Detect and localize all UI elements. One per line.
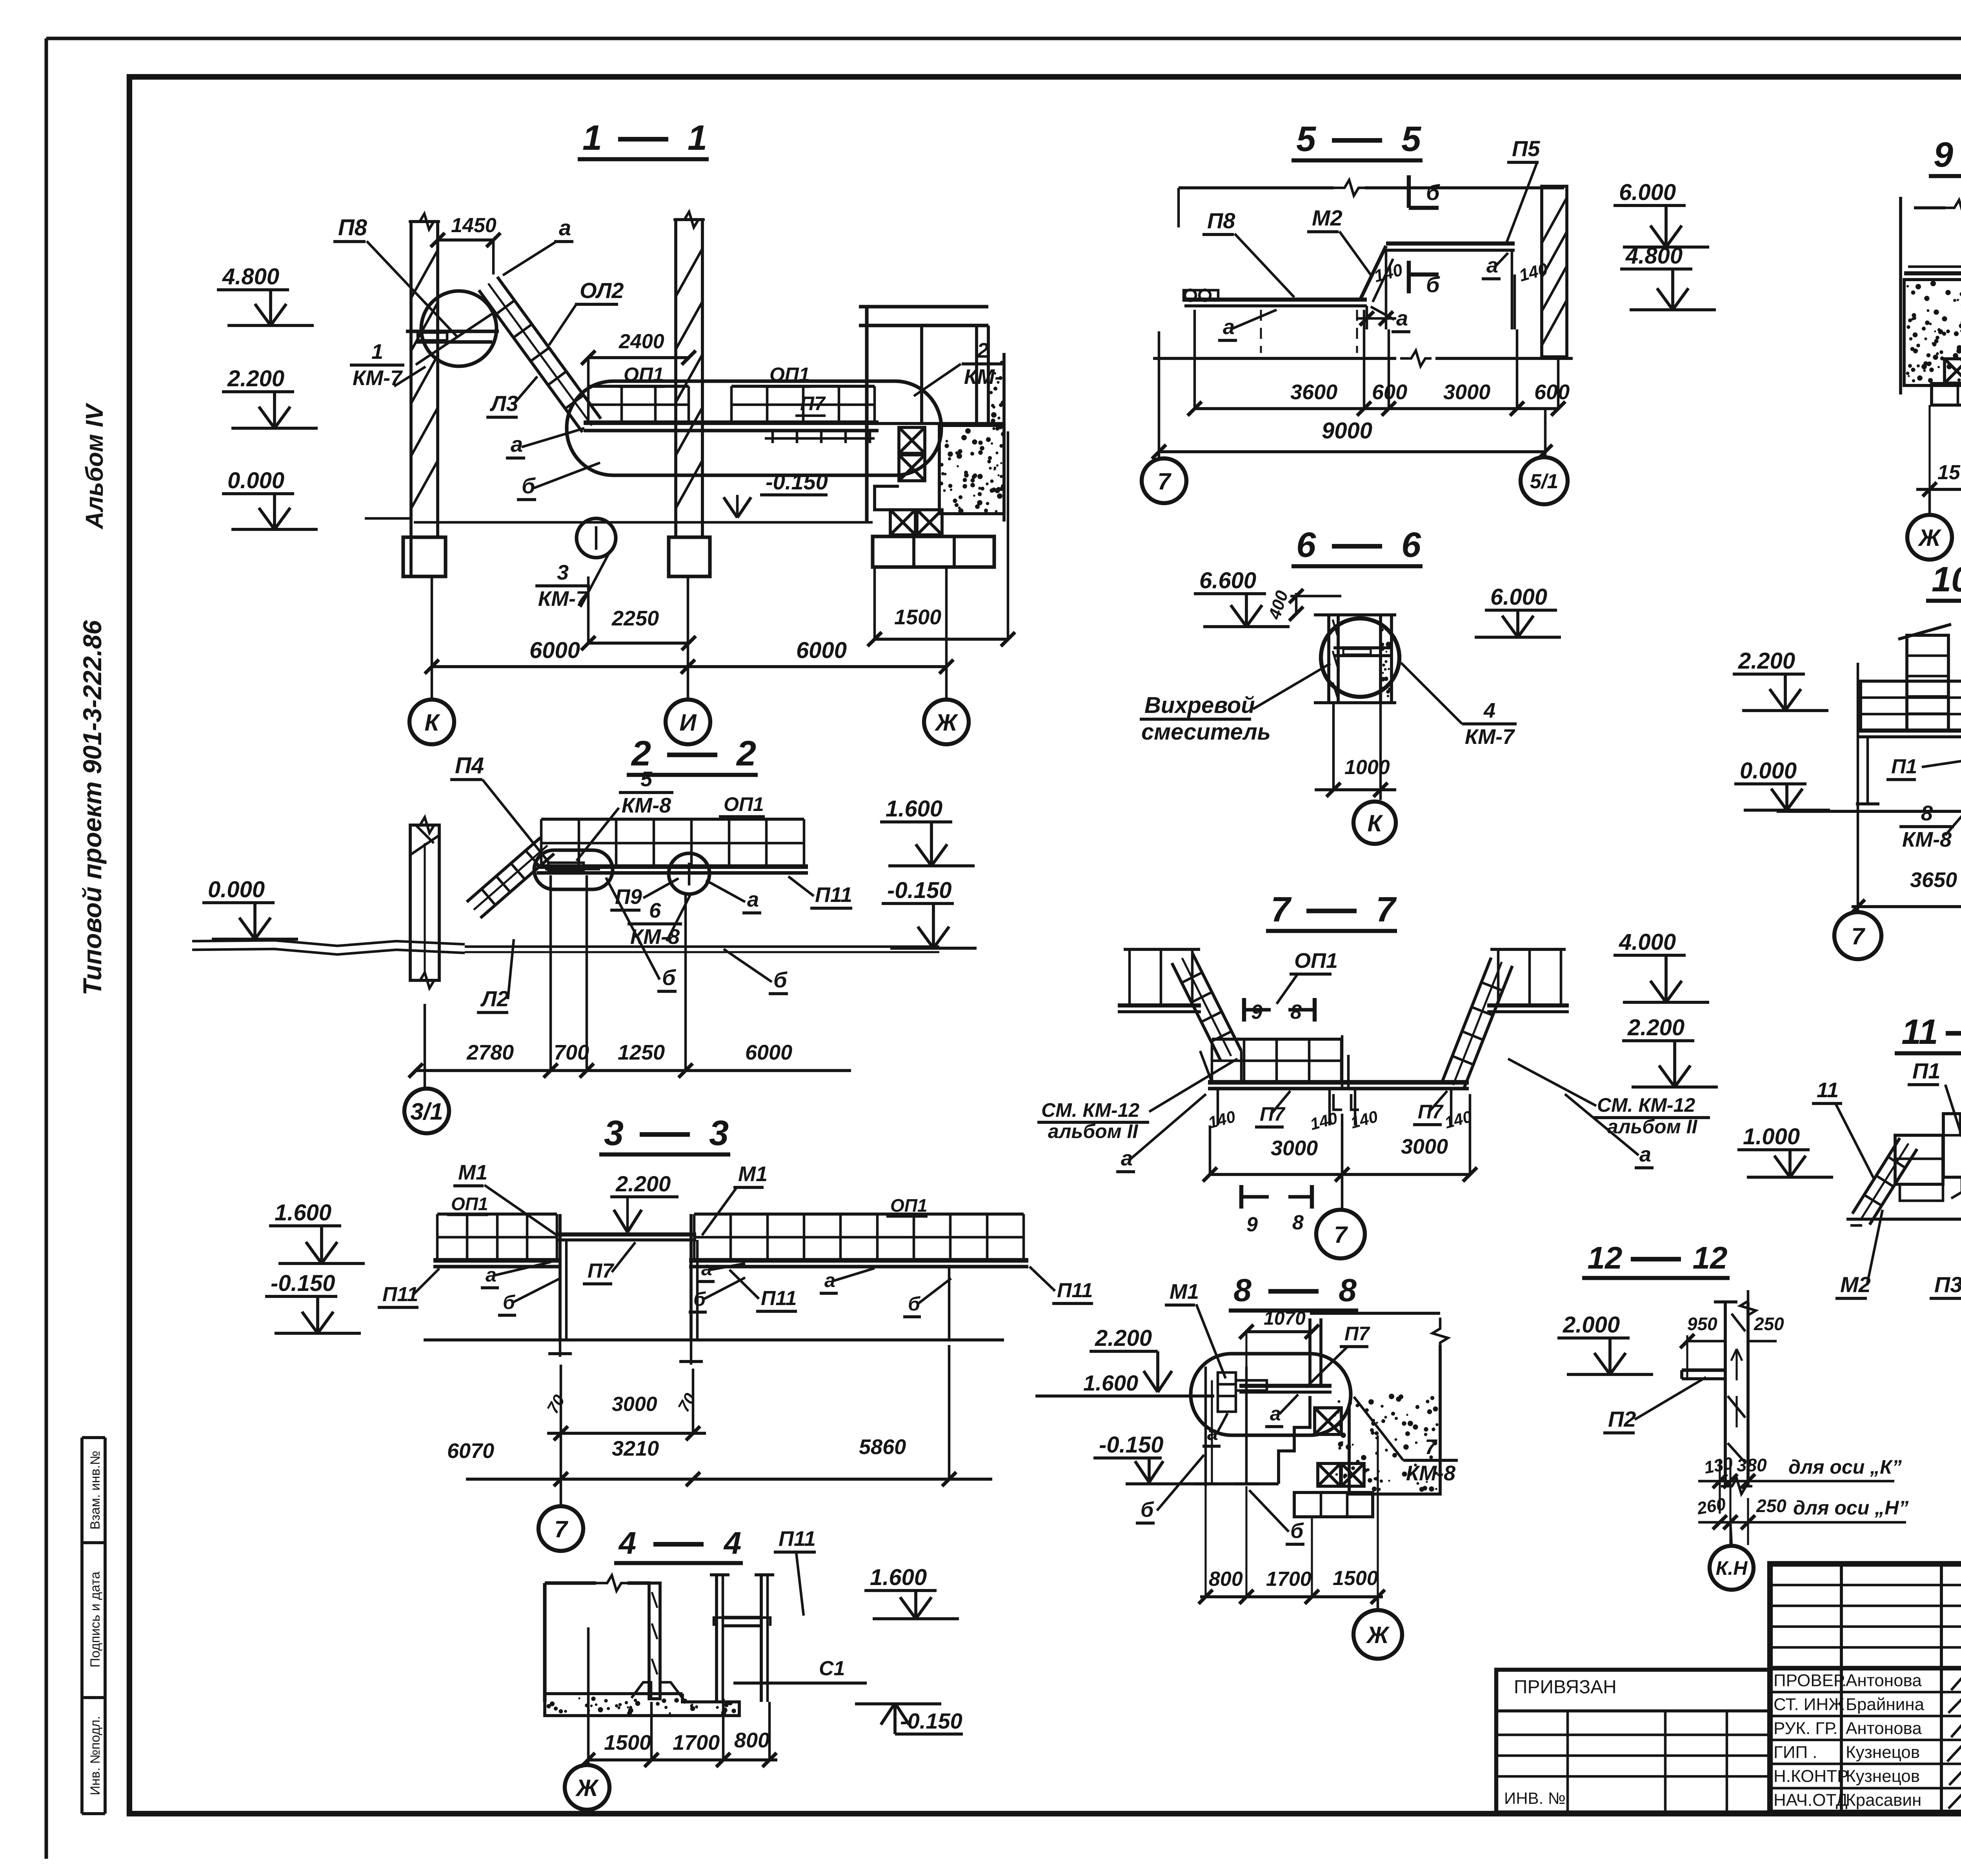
svg-text:4: 4 — [618, 1525, 637, 1560]
svg-text:П11: П11 — [815, 883, 852, 907]
svg-text:6.000: 6.000 — [1619, 180, 1676, 205]
svg-text:а: а — [511, 432, 523, 456]
svg-text:2400: 2400 — [618, 330, 664, 353]
svg-text:7: 7 — [1271, 890, 1292, 929]
svg-text:6000: 6000 — [529, 638, 580, 663]
svg-text:1500: 1500 — [894, 605, 941, 629]
svg-text:Красавин: Красавин — [1846, 1791, 1921, 1810]
svg-text:Антонова: Антонова — [1846, 1719, 1922, 1738]
concrete block 8-8 — [1310, 1312, 1440, 1315]
svg-text:7: 7 — [1425, 1435, 1438, 1459]
axis circle I — [666, 700, 710, 744]
svg-text:СМ. КМ-12: СМ. КМ-12 — [1597, 1094, 1695, 1116]
svg-text:5/1: 5/1 — [1530, 470, 1558, 493]
svg-text:б: б — [1426, 272, 1440, 297]
svg-text:-0.150: -0.150 — [900, 1709, 962, 1733]
svg-text:3650: 3650 — [1910, 868, 1957, 892]
svg-text:3/1: 3/1 — [410, 1098, 443, 1125]
svg-text:К.Н: К.Н — [1716, 1557, 1748, 1579]
svg-text:4: 4 — [723, 1525, 742, 1560]
svg-text:2780: 2780 — [466, 1041, 514, 1064]
svg-text:ПРИВЯЗАН: ПРИВЯЗАН — [1514, 1677, 1617, 1698]
svg-text:П7: П7 — [1344, 1323, 1370, 1345]
svg-text:П5: П5 — [1512, 136, 1540, 161]
svg-text:3000: 3000 — [1271, 1136, 1318, 1160]
svg-text:Л2: Л2 — [480, 986, 509, 1011]
svg-text:ОП1: ОП1 — [724, 793, 764, 815]
platform railing OP1 right — [731, 385, 875, 388]
svg-text:а: а — [559, 215, 571, 240]
svg-text:Кузнецов: Кузнецов — [1846, 1743, 1920, 1762]
platform railing OP1 2-2 — [541, 818, 804, 821]
svg-text:П11: П11 — [1057, 1279, 1093, 1302]
detail circle on wall bracket — [421, 291, 497, 366]
svg-text:1.000: 1.000 — [1743, 1124, 1800, 1149]
deck 9-9 — [1904, 271, 1961, 275]
svg-text:КМ-8: КМ-8 — [622, 794, 671, 817]
svg-text:10: 10 — [1932, 560, 1961, 599]
svg-text:11: 11 — [1901, 1013, 1938, 1052]
svg-text:1250: 1250 — [618, 1041, 665, 1064]
svg-text:0.000: 0.000 — [227, 468, 284, 493]
wall bracket platform — [406, 329, 499, 333]
svg-text:П8: П8 — [1207, 208, 1235, 233]
privyazan box — [1496, 1670, 1770, 1812]
right deck 3-3 — [689, 1258, 1028, 1263]
section marks 9 8 bottom — [1239, 1185, 1243, 1209]
svg-text:2: 2 — [736, 734, 756, 773]
svg-text:1500: 1500 — [1937, 461, 1961, 484]
svg-text:7: 7 — [1157, 468, 1172, 494]
center deck 3-3 — [557, 1232, 696, 1236]
svg-text:1.600: 1.600 — [1083, 1371, 1138, 1395]
svg-text:3: 3 — [604, 1114, 624, 1153]
platform deck — [584, 420, 879, 425]
svg-text:4.800: 4.800 — [1625, 243, 1683, 269]
svg-text:5860: 5860 — [859, 1435, 906, 1459]
svg-text:Вихревой: Вихревой — [1144, 693, 1255, 718]
left upper platform 7-7 — [1124, 948, 1200, 951]
svg-text:1000: 1000 — [1344, 756, 1390, 779]
svg-text:6.600: 6.600 — [1199, 568, 1256, 593]
mixer walls 6-6 — [1327, 614, 1330, 702]
svg-text:1.600: 1.600 — [870, 1565, 927, 1590]
steps 8-8 — [1279, 1396, 1310, 1484]
ground line 5-5 — [1153, 357, 1396, 360]
svg-text:9: 9 — [1246, 1213, 1258, 1236]
svg-text:4: 4 — [1483, 699, 1495, 722]
svg-text:б: б — [1426, 180, 1440, 205]
upper platform P5 deck — [1386, 242, 1515, 245]
svg-text:950: 950 — [1687, 1314, 1717, 1334]
svg-text:КМ-7: КМ-7 — [1465, 725, 1515, 749]
revision table rows — [1770, 1584, 1961, 1587]
tank bottom slab — [545, 1692, 682, 1695]
svg-text:а: а — [1639, 1143, 1651, 1166]
svg-text:ОП1: ОП1 — [1294, 949, 1338, 973]
svg-text:8: 8 — [1233, 1272, 1252, 1308]
svg-text:Типовой проект 901-3-222.86: Типовой проект 901-3-222.86 — [78, 620, 107, 995]
left stamp strip — [80, 1438, 84, 1814]
svg-text:Подпись и дата: Подпись и дата — [88, 1572, 103, 1668]
svg-text:б: б — [773, 967, 788, 992]
signatures scribbles — [1951, 1671, 1961, 1690]
svg-text:800: 800 — [734, 1729, 769, 1752]
ground 11-11 — [1846, 1218, 1961, 1221]
svg-text:ГИП .: ГИП . — [1774, 1743, 1817, 1762]
svg-text:1500: 1500 — [604, 1731, 651, 1754]
sheet outer border — [46, 36, 1961, 40]
svg-text:2.200: 2.200 — [1627, 1015, 1684, 1040]
concrete block 9-9 — [1904, 280, 1961, 385]
axis circle Zh 8-8 — [1377, 1597, 1379, 1610]
svg-text:КМ-8: КМ-8 — [1902, 828, 1952, 851]
svg-text:4.000: 4.000 — [1619, 929, 1676, 955]
svg-text:М1: М1 — [738, 1162, 768, 1186]
svg-text:1: 1 — [371, 340, 383, 364]
svg-text:К: К — [1368, 810, 1384, 836]
axis line 7-7 — [1341, 1114, 1344, 1209]
axis circle Zh 9-9 — [1928, 489, 1931, 514]
svg-text:И: И — [679, 709, 697, 736]
axis circle 7 10-10 — [1834, 912, 1881, 959]
svg-text:7: 7 — [1851, 923, 1865, 949]
svg-text:3600: 3600 — [1290, 380, 1337, 404]
detail stadium outline — [567, 381, 941, 475]
svg-text:8: 8 — [1290, 1001, 1302, 1023]
svg-text:6: 6 — [1401, 525, 1421, 565]
svg-text:Н.КОНТР: Н.КОНТР — [1774, 1767, 1848, 1786]
svg-text:а: а — [824, 1269, 835, 1291]
ground 8-8 — [1126, 1482, 1279, 1485]
section marks 9 8 top — [1242, 998, 1246, 1022]
axis lines to circles — [431, 576, 433, 700]
svg-text:-0.150: -0.150 — [271, 1271, 335, 1296]
svg-text:Ж: Ж — [1366, 1622, 1390, 1648]
svg-text:2.200: 2.200 — [227, 366, 284, 391]
svg-text:П4: П4 — [455, 753, 484, 778]
center joint — [1341, 1035, 1344, 1089]
svg-text:6: 6 — [1296, 525, 1316, 565]
svg-text:0.000: 0.000 — [1740, 758, 1797, 783]
svg-text:250: 250 — [1754, 1314, 1784, 1334]
axis circle Zh — [924, 700, 969, 744]
section marks b 5-5 — [1407, 175, 1411, 208]
svg-text:380: 380 — [1737, 1455, 1767, 1475]
svg-text:П11: П11 — [761, 1287, 797, 1310]
svg-text:для оси „Н”: для оси „Н” — [1793, 1497, 1908, 1519]
svg-text:600: 600 — [1534, 380, 1570, 404]
svg-text:ОП1: ОП1 — [890, 1195, 927, 1216]
platform railing OP1 left — [588, 385, 689, 388]
axis circle K — [409, 700, 454, 744]
svg-text:1: 1 — [688, 118, 707, 158]
posts 10-10 — [1866, 737, 1869, 804]
center posts 3-3 — [558, 1214, 562, 1340]
main box 11-11 — [1943, 1114, 1961, 1177]
detail circle 2-2 — [669, 853, 709, 894]
svg-text:3000: 3000 — [1443, 380, 1490, 404]
svg-text:6: 6 — [649, 899, 661, 922]
axis circle K 6-6 — [1353, 802, 1396, 844]
svg-text:7: 7 — [1334, 1222, 1348, 1248]
svg-text:6000: 6000 — [796, 638, 847, 663]
right upper platform 7-7 — [1490, 948, 1566, 951]
svg-text:2: 2 — [977, 339, 989, 362]
svg-text:П7: П7 — [800, 393, 826, 414]
ladder L2 — [467, 838, 540, 902]
svg-text:2.200: 2.200 — [615, 1171, 671, 1196]
column 3/1 axis — [410, 825, 439, 980]
svg-text:9: 9 — [1251, 1001, 1262, 1023]
detail circle 6-6 — [1321, 618, 1399, 697]
right structure KM-7 — [865, 307, 868, 522]
axis circle 3/1 — [404, 1089, 449, 1133]
svg-text:2.000: 2.000 — [1563, 1312, 1620, 1338]
ground 10-10 — [1777, 810, 1961, 813]
svg-text:1.600: 1.600 — [886, 796, 942, 822]
svg-text:1450: 1450 — [451, 214, 497, 237]
svg-text:ИНВ. №: ИНВ. № — [1504, 1789, 1566, 1807]
svg-text:ПРОВЕР.: ПРОВЕР. — [1774, 1671, 1846, 1690]
floor line — [414, 521, 873, 524]
svg-text:1070: 1070 — [1264, 1308, 1306, 1329]
svg-text:6000: 6000 — [745, 1041, 792, 1064]
svg-text:0.000: 0.000 — [208, 877, 265, 902]
svg-text:250: 250 — [1756, 1496, 1786, 1516]
platform deck 2-2 — [537, 864, 808, 869]
left axis 10-10 — [1857, 663, 1859, 912]
tank walls 4-4 — [543, 1583, 546, 1702]
svg-text:а: а — [747, 888, 759, 911]
svg-text:К: К — [425, 709, 441, 736]
deck P7 8-8 — [1239, 1384, 1332, 1388]
svg-text:6070: 6070 — [447, 1439, 494, 1463]
platform M1 boxes — [1218, 1372, 1236, 1412]
axis circle 7 7-7 — [1316, 1210, 1365, 1258]
svg-text:б: б — [662, 965, 676, 990]
dashed axis P8 — [1260, 310, 1262, 353]
svg-text:РУК. ГР.: РУК. ГР. — [1774, 1719, 1838, 1738]
deck 10-10 — [1858, 729, 1961, 733]
svg-text:Кузнецов: Кузнецов — [1846, 1767, 1920, 1786]
lower platform P8 deck — [1184, 298, 1367, 302]
bottom blocks 8-8 — [1294, 1492, 1373, 1517]
svg-text:5: 5 — [1401, 120, 1422, 159]
axis circle K.N — [1730, 1522, 1732, 1546]
svg-text:8: 8 — [1292, 1211, 1304, 1234]
top chord line 5-5 — [1179, 186, 1333, 189]
left ladder 7-7 — [1192, 953, 1241, 1051]
post platform 4-4 — [723, 1616, 761, 1619]
svg-text:Ж: Ж — [1917, 525, 1942, 551]
svg-text:Ж: Ж — [575, 1775, 599, 1801]
svg-text:3000: 3000 — [1401, 1135, 1448, 1158]
detail stadium 2-2 — [534, 850, 613, 889]
svg-text:С1: С1 — [819, 1657, 845, 1680]
svg-text:9: 9 — [1934, 135, 1953, 175]
svg-text:7: 7 — [554, 1516, 568, 1542]
revision table columns — [1840, 1564, 1843, 1812]
svg-text:12: 12 — [1693, 1240, 1728, 1275]
posts 8-8 — [1204, 1367, 1207, 1486]
svg-text:СТ. ИНЖ: СТ. ИНЖ — [1774, 1695, 1845, 1714]
left ladder 11-11 — [1852, 1138, 1900, 1214]
svg-text:800: 800 — [1209, 1568, 1243, 1591]
svg-text:-0.150: -0.150 — [1099, 1432, 1163, 1458]
axis circle Zh 4-4 — [587, 1760, 590, 1765]
title block main box — [1770, 1564, 1961, 1812]
svg-text:11: 11 — [1817, 1078, 1839, 1102]
wall 8-8 — [1308, 1318, 1312, 1386]
svg-text:П11: П11 — [779, 1527, 816, 1551]
svg-text:М1: М1 — [1170, 1280, 1199, 1303]
svg-text:а: а — [1396, 307, 1408, 330]
svg-text:б: б — [522, 473, 536, 498]
left box 11-11 — [1895, 1135, 1943, 1184]
svg-text:Инв. №подл.: Инв. №подл. — [88, 1716, 103, 1795]
xboxes 8-8 — [1315, 1408, 1341, 1434]
wall top 9-9 — [1899, 197, 1902, 394]
svg-text:КМ-8: КМ-8 — [1406, 1462, 1455, 1485]
svg-text:альбом II: альбом II — [1048, 1120, 1138, 1142]
center railing 7-7 — [1212, 1038, 1341, 1041]
slabs stack 10-10 — [1861, 681, 1961, 731]
ground wavy lines — [192, 940, 465, 946]
svg-text:Ж: Ж — [934, 709, 959, 736]
central wall column I axis — [676, 220, 702, 537]
dim arrows on column — [1735, 1349, 1737, 1380]
svg-text:7: 7 — [1376, 890, 1397, 929]
ladder OL2 — [497, 277, 601, 419]
right wall 5-5 — [1542, 186, 1567, 357]
svg-text:Брайнина: Брайнина — [1846, 1695, 1925, 1714]
svg-text:б: б — [1141, 1498, 1154, 1522]
posts 4-4 — [715, 1575, 718, 1702]
svg-text:для оси „К”: для оси „К” — [1788, 1456, 1902, 1478]
svg-text:П2: П2 — [1608, 1407, 1636, 1431]
M2 diagonal — [1360, 246, 1386, 300]
left railing 3-3 — [437, 1212, 557, 1216]
svg-text:ОП1: ОП1 — [451, 1194, 488, 1214]
svg-text:8: 8 — [1921, 802, 1933, 825]
svg-text:1.600: 1.600 — [275, 1200, 331, 1225]
svg-text:2250: 2250 — [611, 607, 659, 630]
axis circle 5/1 — [1544, 409, 1547, 457]
ground line 3-3 — [424, 1338, 1004, 1342]
svg-text:НАЧ.ОТД: НАЧ.ОТД — [1774, 1791, 1848, 1810]
svg-text:П11: П11 — [382, 1283, 418, 1306]
svg-text:1700: 1700 — [1266, 1568, 1312, 1591]
axis line to 7 — [560, 1433, 562, 1506]
svg-text:П1: П1 — [1891, 755, 1917, 778]
wall column K axis — [411, 222, 438, 537]
tower 10-10 — [1907, 635, 1948, 731]
svg-text:КМ-: КМ- — [964, 365, 1002, 389]
svg-text:-0.150: -0.150 — [887, 878, 951, 903]
svg-text:3000: 3000 — [612, 1393, 657, 1416]
column 12-12 — [1724, 1302, 1727, 1486]
svg-text:М2: М2 — [1312, 205, 1343, 230]
signature rows — [1770, 1691, 1961, 1694]
svg-text:СМ. КМ-12: СМ. КМ-12 — [1041, 1099, 1139, 1121]
bottom blocks 9-9 — [1932, 384, 1961, 405]
svg-text:Взам. инв.№: Взам. инв.№ — [88, 1451, 103, 1529]
svg-text:смеситель: смеситель — [1141, 719, 1271, 745]
posts below ground 3-3 — [559, 1340, 562, 1357]
detail circle small 3/KM-7 — [577, 518, 616, 558]
svg-text:1: 1 — [582, 118, 602, 158]
svg-text:3: 3 — [709, 1114, 729, 1153]
svg-text:1700: 1700 — [673, 1731, 720, 1754]
svg-text:П1: П1 — [1912, 1058, 1940, 1083]
svg-text:П7: П7 — [588, 1260, 614, 1282]
svg-text:4.800: 4.800 — [222, 264, 279, 289]
svg-text:2.200: 2.200 — [1738, 648, 1795, 674]
svg-text:12: 12 — [1588, 1240, 1623, 1275]
svg-text:3: 3 — [557, 561, 569, 584]
svg-text:П8: П8 — [338, 215, 367, 240]
posts and 140 dims 7-7 — [1217, 1089, 1219, 1125]
axis circle 7 of 3-3 — [538, 1506, 583, 1551]
left deck 3-3 — [433, 1258, 562, 1263]
svg-text:5: 5 — [1296, 120, 1317, 159]
svg-text:3210: 3210 — [612, 1437, 659, 1460]
tank axis line — [587, 1627, 590, 1760]
svg-text:5: 5 — [640, 767, 653, 791]
svg-text:9000: 9000 — [1322, 418, 1372, 444]
svg-text:1500: 1500 — [1333, 1567, 1378, 1590]
svg-text:ОЛ2: ОЛ2 — [580, 278, 624, 303]
svg-text:2.200: 2.200 — [1095, 1325, 1152, 1351]
svg-text:а: а — [486, 1264, 497, 1286]
center deck 7-7 — [1208, 1080, 1469, 1085]
mixer bracket — [1333, 646, 1390, 649]
right railing 3-3 — [694, 1212, 1024, 1216]
left ladder supports — [1200, 1051, 1212, 1082]
svg-text:-0.150: -0.150 — [766, 469, 828, 494]
svg-text:б: б — [1290, 1519, 1304, 1543]
axis circle 7 5-5 — [1158, 452, 1161, 458]
xboxes 9-9 lower — [1945, 359, 1961, 383]
svg-text:Альбом IV: Альбом IV — [81, 402, 108, 530]
svg-text:6.000: 6.000 — [1490, 584, 1547, 610]
bracket platform P2 — [1682, 1368, 1725, 1372]
svg-text:8: 8 — [1339, 1272, 1357, 1308]
svg-text:М1: М1 — [458, 1161, 488, 1184]
svg-text:Антонова: Антонова — [1846, 1671, 1922, 1690]
detail oval 8-8 — [1191, 1354, 1351, 1435]
svg-text:700: 700 — [554, 1041, 589, 1064]
svg-text:альбом II: альбом II — [1607, 1116, 1697, 1138]
svg-text:П3: П3 — [1934, 1272, 1961, 1297]
right ladder 7-7 — [1443, 958, 1491, 1081]
rollers on P8 — [1184, 290, 1218, 300]
